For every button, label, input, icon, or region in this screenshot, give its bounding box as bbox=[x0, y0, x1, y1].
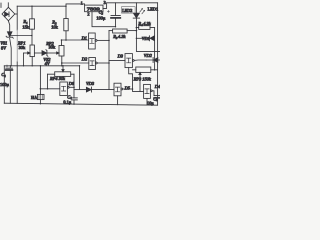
node D2 out junction bbox=[108, 62, 110, 64]
node RP3 right lead junction bbox=[154, 69, 156, 71]
gate D5 schmitt inverter bbox=[114, 83, 133, 105]
capacitor C2 100u bbox=[107, 3, 120, 27]
node D5 out to D4 column bbox=[132, 88, 134, 90]
svg-text:8V: 8V bbox=[1, 45, 7, 50]
svg-text:R34.3k: R34.3k bbox=[112, 34, 126, 40]
wire mid rail bbox=[4, 65, 79, 67]
zener VS2 4V bbox=[34, 50, 59, 57]
wire output bus x109 down bbox=[108, 40, 110, 89]
svg-text:15k: 15k bbox=[22, 24, 29, 29]
svg-text:C1: C1 bbox=[1, 72, 6, 78]
wire D6 input bbox=[40, 88, 59, 90]
svg-text:LED1: LED1 bbox=[148, 7, 159, 12]
svg-text:D2: D2 bbox=[81, 57, 88, 62]
svg-text:RP3 150k: RP3 150k bbox=[133, 76, 152, 81]
bridge rectifier UR bbox=[2, 7, 15, 20]
svg-text:C3: C3 bbox=[153, 96, 158, 102]
regulator U1 7809 bbox=[85, 5, 103, 12]
label LED2 boxed bbox=[122, 7, 136, 13]
potentiometer RP4 30k bbox=[48, 66, 75, 77]
wire R4-VD column x154.6 bbox=[154, 28, 156, 70]
wire bottom rail bbox=[4, 103, 157, 105]
wire AC stub to bridge top bbox=[7, 3, 9, 8]
svg-text:RP4 30k: RP4 30k bbox=[49, 76, 66, 81]
gate D4 schmitt inverter bbox=[144, 84, 154, 105]
wire R2 RP2 to D1 input bbox=[62, 39, 89, 41]
wire D3 bottom to D4 input bbox=[129, 68, 144, 92]
diode VD3 bbox=[74, 87, 114, 92]
wire 7809 output to top rail bbox=[103, 3, 158, 9]
wire AC input tick left edge bbox=[0, 3, 2, 8]
wire left probe column bbox=[3, 66, 5, 104]
potentiometer RP3 150k bbox=[133, 67, 158, 91]
resistor R3 4.3k bbox=[109, 29, 136, 33]
wire tee up to 7809 input bbox=[66, 4, 85, 6]
zener VS1 8V bbox=[6, 32, 13, 38]
wire bridge right vertex to left bus bbox=[15, 13, 17, 15]
svg-text:3: 3 bbox=[104, 0, 106, 5]
wire left bus vertical bbox=[16, 6, 18, 30]
wire top rail bbox=[17, 5, 66, 7]
wire LED2 column down to y51 bbox=[136, 31, 160, 52]
svg-text:100μ: 100μ bbox=[0, 82, 10, 87]
wire RP4 right column bbox=[73, 74, 75, 98]
svg-text:VD2: VD2 bbox=[144, 53, 153, 58]
wire bridge bottom column bbox=[8, 21, 11, 66]
potentiometer RP2 30k bbox=[59, 40, 64, 66]
wire D2 input from RP2 bottom column bbox=[62, 62, 89, 64]
wire RP4 left column to D6 input bbox=[47, 74, 49, 89]
node junctions bbox=[31, 6, 32, 7]
wire D3 input bbox=[109, 59, 125, 61]
LED2 indicator bbox=[133, 3, 145, 31]
svg-text:30k: 30k bbox=[19, 45, 26, 50]
wire R3 column to D1 output bbox=[108, 31, 110, 41]
node D6 out junction bbox=[73, 87, 75, 89]
node HA top junction bbox=[40, 88, 42, 90]
potentiometer RP1 30k bbox=[24, 45, 35, 66]
svg-text:4V: 4V bbox=[45, 61, 51, 66]
capacitor C1 100u bbox=[6, 65, 13, 103]
svg-text:D5: D5 bbox=[124, 85, 131, 90]
buzzer HA bbox=[37, 66, 44, 104]
gate D3 schmitt inverter bbox=[125, 54, 146, 68]
svg-text:30k: 30k bbox=[49, 44, 56, 49]
wire 7809 ground pin down right to C2 bbox=[92, 12, 116, 27]
svg-text:HA: HA bbox=[31, 95, 38, 100]
resistor R4 4.3k bbox=[136, 26, 154, 30]
svg-text:LED2: LED2 bbox=[122, 8, 132, 13]
svg-text:1: 1 bbox=[81, 0, 83, 5]
svg-text:D3: D3 bbox=[117, 54, 124, 59]
diode VD2 bbox=[146, 58, 160, 63]
node R4 LED2col junction bbox=[136, 27, 138, 29]
gate D1 schmitt inverter bbox=[89, 33, 109, 49]
diode VD1 bbox=[136, 36, 154, 41]
resistor R2 10k bbox=[64, 6, 68, 40]
svg-text:R44.3k: R44.3k bbox=[137, 21, 151, 27]
wire mid rail right drop to VD3 wire bbox=[79, 66, 81, 90]
svg-text:D4: D4 bbox=[154, 84, 160, 89]
node junction at R1 column bbox=[31, 35, 33, 37]
svg-text:2: 2 bbox=[87, 11, 89, 16]
resistor R1 15k bbox=[30, 6, 35, 45]
svg-text:100μ: 100μ bbox=[96, 15, 106, 20]
gate D2 schmitt inverter bbox=[89, 58, 109, 70]
svg-text:VD1: VD1 bbox=[142, 36, 150, 41]
svg-text:VD3: VD3 bbox=[86, 81, 95, 86]
svg-text:D6: D6 bbox=[68, 81, 75, 86]
wire right bus x157.6 bbox=[157, 3, 159, 105]
wire VS1 node to R1 column bbox=[10, 35, 32, 37]
svg-text:D1: D1 bbox=[81, 36, 87, 41]
capacitor C4 0.1u bbox=[71, 98, 77, 104]
svg-text:10k: 10k bbox=[51, 24, 58, 29]
gate D6 schmitt inverter bbox=[60, 82, 74, 96]
capacitor C3 10u bbox=[154, 96, 160, 98]
node D1 output junction bbox=[108, 40, 110, 42]
